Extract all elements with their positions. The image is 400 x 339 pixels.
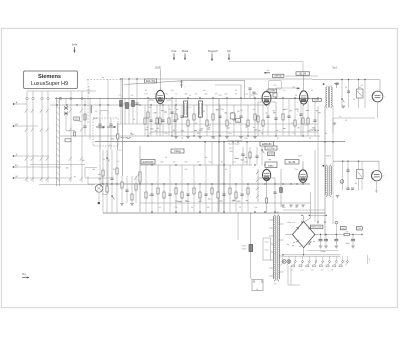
rectifier label box B250 C100 (310, 225, 323, 229)
svg-text:125: 125 (301, 270, 304, 272)
svg-text:15p: 15p (208, 162, 211, 164)
svg-text:Gummilager: Gummilager (228, 143, 240, 146)
label 500u (345, 243, 350, 245)
scan text specks (66, 109, 321, 246)
svg-text:B250 C100: B250 C100 (312, 227, 323, 229)
long feedback wire upper (124, 81, 245, 98)
svg-text:10n: 10n (252, 109, 255, 111)
svg-text:25k: 25k (294, 169, 297, 171)
label 0,1 with arrow (293, 86, 300, 89)
terminal A (13, 101, 18, 105)
wire rect top (309, 214, 326, 216)
svg-text:25k: 25k (164, 133, 167, 135)
dashed gang link vertical (87, 80, 89, 125)
text MW (93, 118, 98, 120)
volume pot P1 (134, 146, 141, 212)
arrow 5w (264, 70, 270, 74)
svg-text:2k: 2k (169, 109, 171, 111)
voltage labels (291, 270, 334, 272)
rail (screen) y132 (150, 131, 318, 133)
terminal A1 (13, 123, 19, 127)
svg-text:8k: 8k (325, 133, 327, 135)
svg-text:8k: 8k (311, 90, 313, 92)
svg-text:5k: 5k (239, 207, 241, 209)
svg-text:25k: 25k (130, 95, 133, 97)
rail AF y203 (140, 202, 310, 204)
rail y91 under title (27, 90, 96, 92)
hook wires above lamp (85, 168, 110, 185)
tube V5 EL84 (299, 168, 307, 185)
svg-text:10n: 10n (148, 107, 151, 109)
terminal E1 (13, 165, 19, 168)
svg-text:0,05: 0,05 (164, 94, 168, 96)
box San (230, 113, 235, 119)
speaker LS1 (372, 91, 386, 102)
svg-text:(MW): (MW) (93, 118, 98, 120)
rail AF y184 (100, 183, 310, 185)
tuning capacitor gang C-var dashed box (93, 118, 118, 146)
caps above V2 (248, 88, 255, 98)
label box mid1 (265, 146, 277, 150)
svg-text:240: 240 (331, 270, 334, 272)
Tr1 primary taps (269, 220, 284, 276)
wire speaker LS2 down (375, 181, 378, 193)
output transformer Tr2 (upper) (323, 83, 339, 108)
label Sp1 (333, 67, 339, 70)
svg-text:1M: 1M (171, 90, 174, 92)
svg-text:Klang: Klang (174, 150, 181, 153)
svg-text:2k: 2k (261, 133, 263, 135)
terminal E (13, 154, 18, 157)
svg-text:EL 84: EL 84 (289, 160, 296, 164)
text DR (298, 156, 302, 158)
svg-text:5k: 5k (189, 95, 191, 97)
resistor box 470 (74, 117, 80, 121)
svg-text:0,1/250: 0,1/250 (267, 148, 275, 150)
svg-text:Rg: Rg (22, 272, 26, 276)
rail (anode B+ upper) y98 (55, 98, 318, 100)
rail y124 (118, 123, 318, 125)
wire connector down (335, 224, 337, 239)
note Rg (22, 272, 29, 279)
IF strip components (174, 98, 257, 139)
wire L-shape antenna (66, 123, 76, 136)
svg-text:1M: 1M (197, 133, 200, 135)
label Pick with arrow (172, 49, 178, 60)
svg-text:10n: 10n (204, 157, 207, 159)
bridge rectifier Gr1 (285, 215, 321, 254)
wire antenna to bank (18, 103, 28, 105)
rail (chassis upper) y142 (95, 141, 345, 143)
text under Tr1 (274, 284, 278, 286)
detector network (282, 98, 317, 136)
IF transformer F2 (199, 101, 203, 117)
wire M to bank (18, 177, 72, 179)
oscillator section components (120, 79, 139, 124)
wire x315 vertical (314, 150, 316, 222)
wire A1 to bank (18, 125, 39, 127)
IF transformer F1 (184, 101, 188, 117)
tone switch levers (256, 171, 259, 198)
rail AF chassis y212 (103, 212, 325, 214)
deck connect verticals (205, 142, 247, 166)
svg-text:7g: 7g (339, 116, 341, 118)
wire rail to speaker LS2 (333, 161, 379, 171)
svg-text:2M: 2M (215, 94, 218, 96)
rail y79 solid (122, 78, 312, 80)
svg-text:1M: 1M (237, 111, 240, 113)
wire x325 vertical (324, 106, 326, 236)
svg-text:(103): (103) (155, 66, 161, 70)
left deck1 wire x85 (84, 99, 86, 136)
svg-text:15p: 15p (224, 94, 227, 96)
wire y88 segment (276, 87, 300, 89)
title box Siemens LuxusSuper H9 (24, 71, 78, 89)
svg-text:68k: 68k (184, 94, 187, 96)
vertical annotation text (88, 85, 91, 94)
label Spr with arrow (227, 49, 231, 60)
svg-text:1R-1: 1R-1 (326, 156, 332, 158)
box 600 (236, 119, 241, 123)
svg-text:gez.: gez. (229, 148, 233, 150)
label Zeile with arrow (72, 43, 78, 53)
svg-text:Spannungsregler: Spannungsregler (227, 140, 243, 142)
label 5w-1 (326, 156, 332, 158)
selector down wires (288, 266, 300, 285)
svg-text:68k: 68k (160, 162, 163, 164)
svg-text:2x50µ: 2x50µ (320, 251, 326, 253)
voltage selector switch (281, 255, 349, 267)
svg-text:EABC80: EABC80 (262, 143, 272, 146)
svg-text:LuxusSuper H9: LuxusSuper H9 (31, 81, 68, 87)
V2 grid box (273, 93, 277, 97)
input coil L2 cluster (83, 105, 91, 127)
svg-text:M: M (16, 176, 18, 178)
wire bank column 2 (99, 98, 101, 186)
svg-text:1n: 1n (175, 94, 177, 96)
wire grid top V1 (160, 70, 162, 90)
tube V1 ECH81 (156, 88, 165, 105)
svg-text:EABC: EABC (268, 165, 274, 168)
rail y136 (60, 135, 320, 137)
svg-text:(2x): (2x) (358, 228, 362, 230)
label box EABC 80 (141, 160, 155, 165)
svg-text:Siemens: Siemens (38, 74, 61, 80)
svg-text:2k: 2k (235, 90, 237, 92)
label 2x50u (320, 251, 326, 253)
V2 pin wiring (257, 102, 278, 136)
svg-text:220p: 220p (244, 162, 248, 164)
svg-text:(106): (106) (268, 154, 273, 156)
svg-text:12k: 12k (194, 94, 197, 96)
wire x238 vertical (237, 212, 239, 240)
svg-text:D.R: D.R (298, 156, 302, 158)
V3 label box right (312, 99, 321, 102)
svg-text:Magisch: Magisch (208, 49, 218, 53)
label box mid2 (265, 162, 277, 168)
value text row above rails (144, 94, 258, 164)
dial lamp La1 (95, 185, 107, 196)
V1 cathode network (144, 105, 177, 136)
svg-text:48: 48 (345, 120, 347, 122)
svg-text:5k: 5k (225, 169, 227, 171)
svg-text:25k: 25k (220, 109, 223, 111)
V1 pin wiring (147, 100, 174, 136)
svg-text:150: 150 (311, 270, 314, 272)
hook wire over gang (100, 111, 108, 116)
label Magisch with arrow (208, 49, 218, 61)
pilot lamp La2 (283, 260, 287, 264)
antenna coil L1 (twisted pair) (57, 97, 60, 186)
svg-text:Skala: Skala (182, 49, 189, 53)
svg-text:8k: 8k (113, 169, 115, 171)
svg-text:2M: 2M (197, 162, 200, 164)
svg-text:8k: 8k (353, 99, 355, 101)
svg-text:1M: 1M (123, 103, 126, 105)
svg-text:EL 84: EL 84 (300, 72, 307, 75)
label box klang (171, 149, 184, 153)
wire speaker LS1 down (377, 102, 379, 118)
B+ rail y234.5 (321, 234, 363, 236)
svg-text:12k: 12k (172, 162, 175, 164)
volume control network (102, 150, 137, 213)
svg-text:5k: 5k (213, 138, 215, 140)
text Gummilager (228, 143, 240, 146)
lamp bottom wire (98, 192, 100, 204)
rail (AVC dashed) y79 left (87, 79, 122, 81)
svg-text:250V: 250V (242, 249, 247, 251)
svg-text:1M: 1M (249, 157, 252, 159)
terminal M (13, 176, 18, 179)
svg-text:10n: 10n (228, 133, 231, 135)
svg-text:1M: 1M (207, 207, 210, 209)
tube label (103) (155, 66, 161, 70)
filter capacitor C2 (334, 235, 338, 249)
rail y76 right (285, 75, 318, 77)
svg-text:8k: 8k (203, 111, 205, 113)
tube type box EL 84 (296, 72, 310, 76)
wire x333 vertical (332, 106, 334, 224)
tube V2 EBF80 (262, 90, 271, 107)
svg-text:2k: 2k (165, 157, 167, 159)
selector right wire (368, 255, 371, 264)
svg-text:(104): (104) (269, 90, 275, 93)
mains suppressor capacitor (241, 245, 252, 252)
wire E to bank (18, 155, 50, 157)
long feedback wire lower (215, 85, 241, 98)
filter capacitor C1b (324, 235, 328, 249)
wire E1 to bank (18, 166, 62, 168)
component value labels (69, 85, 365, 209)
svg-text:e: e (184, 87, 185, 89)
tone network right (335, 80, 365, 109)
V4 wiring (258, 169, 277, 213)
wire x318 vertical (317, 106, 319, 224)
band selector switch bank S1 wires (26, 91, 95, 185)
tube type box ECH 81 (145, 79, 157, 83)
wire rail to speaker LS1 (312, 80, 380, 92)
tube label box (106) (260, 142, 274, 147)
svg-text:Spr: Spr (227, 49, 231, 53)
AF network components (145, 165, 249, 212)
svg-text:Pick: Pick (172, 49, 178, 53)
svg-text:Zeile: Zeile (72, 43, 78, 47)
mains lead wire (250, 212, 252, 278)
svg-text:Klein auf: Klein auf (287, 222, 295, 224)
feedback wire terminal hook (180, 80, 186, 89)
svg-text:220: 220 (321, 270, 324, 272)
wire V3 anode (303, 75, 305, 91)
gang wire extensions (100, 144, 111, 150)
svg-text:2k: 2k (295, 207, 297, 209)
primary leads box (263, 238, 271, 260)
trunk wire x219 (218, 99, 220, 212)
svg-text:25k: 25k (78, 121, 81, 123)
ground bus caps (307, 249, 339, 251)
wire x310 bend to rectifier (304, 192, 311, 222)
tube V4 EABC80 (263, 167, 271, 182)
column x281 (280, 169, 283, 207)
pot circle lower (340, 180, 344, 184)
rail AF y165 (140, 164, 252, 166)
svg-text:8n: 8n (221, 162, 223, 164)
text Fe (102, 77, 105, 79)
switch contact levers S1 (25, 109, 83, 181)
tone network right lower (343, 161, 363, 190)
svg-text:Wh: Wh (230, 151, 233, 153)
svg-text:131: 131 (273, 85, 276, 87)
switch lever right (341, 98, 344, 102)
mains plug box Ps (251, 278, 263, 291)
filter capacitor C3 (351, 235, 355, 249)
text 1,34 (275, 212, 279, 214)
power transformer Tr1 (273, 213, 279, 282)
speaker LS2 (371, 171, 385, 181)
padder wire (117, 123, 119, 150)
svg-text:8n: 8n (235, 94, 237, 96)
choke resistor (344, 232, 350, 236)
label box right of V5 (285, 160, 299, 165)
tube type box EBF 80 (273, 74, 284, 77)
label Skala with arrow (182, 49, 189, 60)
svg-text:Rm: Rm (375, 191, 378, 193)
svg-text:Drehko: Drehko (98, 127, 104, 130)
svg-text:220p: 220p (254, 94, 258, 96)
tube V3 EL84 (300, 89, 308, 106)
svg-text:5k: 5k (133, 119, 135, 121)
extra detector columns (262, 105, 304, 136)
rail AF y210 (283, 209, 325, 211)
svg-text:10n: 10n (254, 207, 257, 209)
trunk wire x224 (223, 142, 225, 213)
svg-text:4,7k: 4,7k (144, 94, 148, 96)
mid cluster components (241, 147, 264, 165)
svg-text:(1x): (1x) (342, 228, 346, 230)
svg-text:298: 298 (345, 232, 348, 234)
connector circle (335, 221, 338, 224)
long vertical x122.5 (122, 78, 124, 176)
text Klein auf (287, 222, 295, 224)
wire bank column 1 (89, 98, 91, 140)
wire bank column 3 (107, 79, 109, 194)
junction dots 2 (139, 164, 362, 255)
svg-text:1n: 1n (149, 162, 151, 164)
pilot lamp La3 (287, 260, 291, 264)
ground right1 (342, 106, 346, 108)
svg-text:10n: 10n (202, 90, 205, 92)
svg-text:EBF 80: EBF 80 (275, 76, 283, 78)
svg-text:Sp 1: Sp 1 (333, 67, 339, 70)
svg-text:300: 300 (184, 162, 187, 164)
tube label (104) (268, 89, 277, 93)
svg-text:4,7k: 4,7k (244, 94, 248, 96)
grid box V2 (269, 81, 282, 90)
svg-text:300: 300 (204, 94, 207, 96)
svg-text:8k: 8k (355, 183, 357, 185)
svg-text:0,047: 0,047 (241, 246, 247, 248)
svg-text:600: 600 (237, 121, 240, 123)
svg-text:25k: 25k (174, 207, 177, 209)
tube label box 2 (268, 152, 275, 156)
coupling cap bottom (65, 139, 71, 142)
speaker return rail y118 (333, 116, 375, 133)
svg-text:220p: 220p (154, 94, 158, 96)
ground symbols deck2 (281, 205, 305, 207)
ground right2 (336, 196, 340, 198)
rail y105 (50, 104, 270, 106)
trimmer capacitors Ct1 Ct2 (64, 99, 68, 123)
svg-text:4,7k: 4,7k (232, 162, 236, 164)
wire V5 anode (302, 161, 304, 170)
label box right1 (340, 227, 346, 230)
output transformer Tr3 (lower) (323, 165, 332, 198)
label box right2 (356, 227, 362, 231)
svg-text:2k: 2k (291, 123, 293, 125)
text cluster mid (227, 140, 243, 153)
filter capacitor C1a (319, 235, 323, 249)
wire Spr to output (229, 62, 303, 72)
